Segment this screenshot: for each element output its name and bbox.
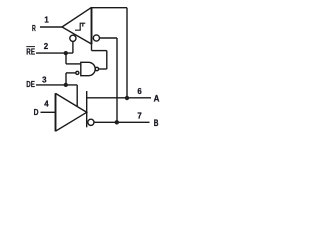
- svg-text:3: 3: [42, 75, 47, 84]
- svg-text:R: R: [32, 23, 36, 33]
- svg-text:D: D: [34, 107, 39, 117]
- svg-text:4: 4: [44, 99, 49, 108]
- svg-text:A: A: [154, 93, 160, 104]
- svg-text:B: B: [154, 118, 159, 129]
- svg-text:DE: DE: [26, 79, 35, 89]
- svg-text:7: 7: [137, 112, 142, 121]
- svg-text:6: 6: [137, 87, 142, 96]
- svg-text:1: 1: [44, 16, 49, 25]
- svg-text:2: 2: [44, 42, 49, 51]
- svg-text:RE: RE: [26, 46, 35, 56]
